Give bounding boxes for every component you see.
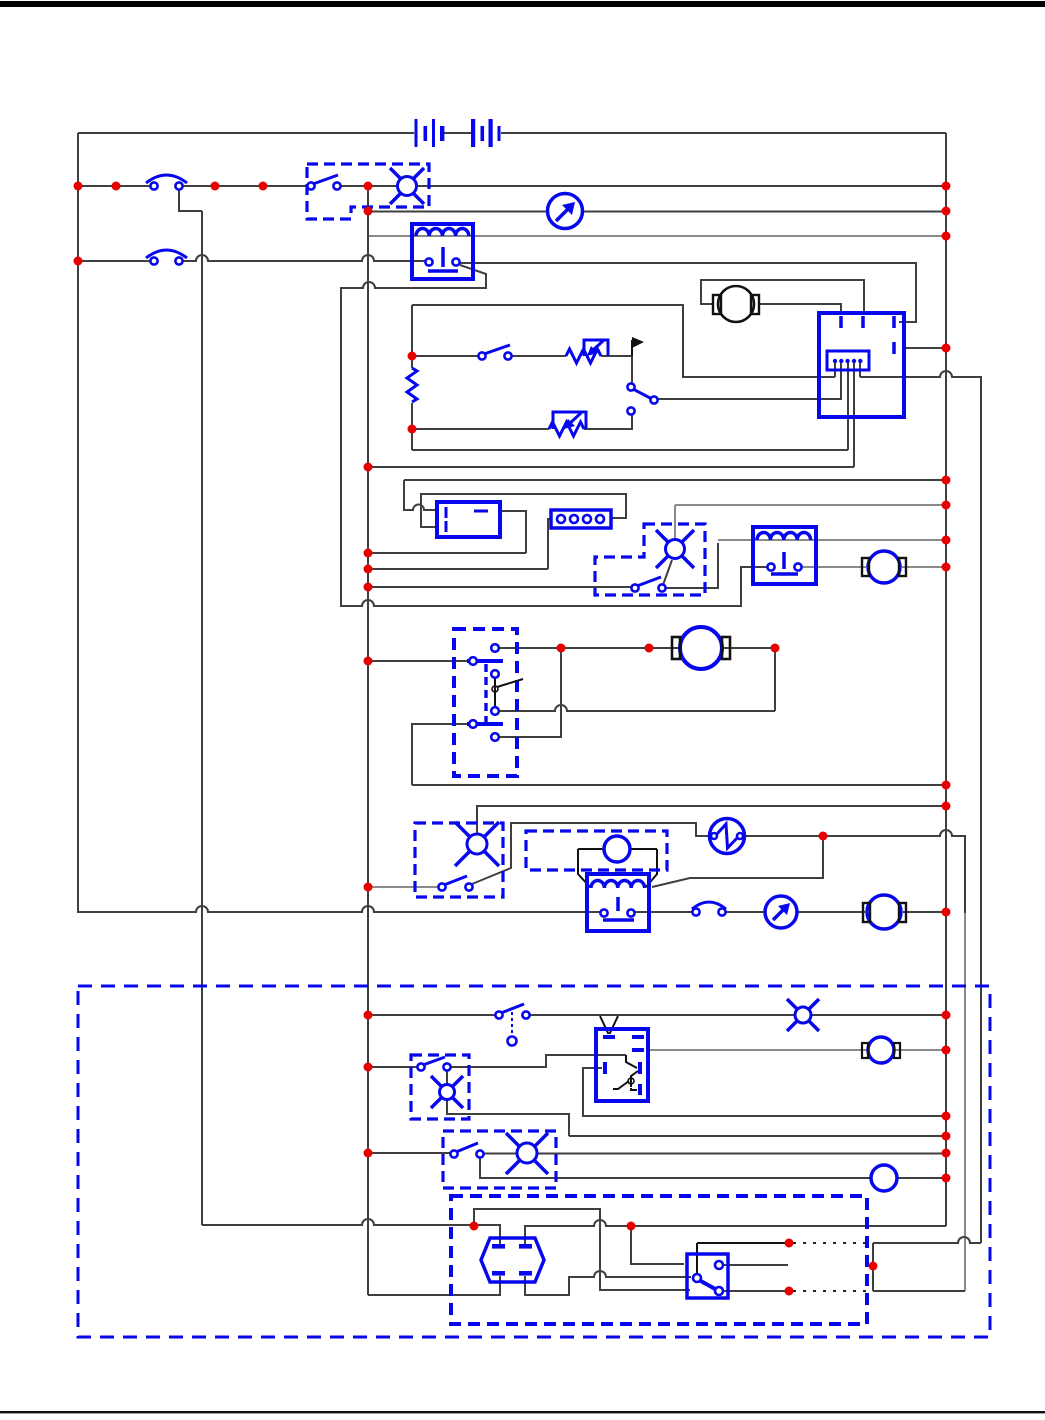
wire motor M1 left to charger pin2 bbox=[701, 280, 864, 312]
wire thermal to x965 rail bbox=[743, 830, 965, 913]
battery BT2 cells group2 bbox=[471, 119, 501, 147]
dashed enclosure sensor box bbox=[526, 831, 667, 870]
wire right rail x=946 bbox=[945, 133, 947, 1226]
node thermal junction bbox=[819, 832, 828, 841]
circuit breaker CB3 bbox=[692, 902, 726, 916]
wire charger pin4 to right rail bbox=[905, 347, 946, 349]
wire gauge line y=211 bbox=[368, 211, 946, 213]
wire switchbox top feed y1243 bbox=[697, 1243, 785, 1274]
relay K2 pivot black bbox=[628, 1078, 634, 1084]
relay pivot black bbox=[492, 679, 523, 692]
wire lamp2 top feed gray bbox=[675, 505, 946, 540]
wire lamp4 link bbox=[446, 1070, 448, 1084]
wire contact y737 up to y648 bbox=[499, 652, 561, 737]
wire x965 rail lower gray bbox=[964, 913, 966, 1291]
wire lamp4 bottom to y1136 bbox=[447, 1100, 946, 1136]
node bus1 dots bbox=[74, 182, 83, 191]
wire dotted y1291 bbox=[793, 1290, 869, 1292]
wire y806 and lamp drop bbox=[477, 806, 946, 834]
node motor M3 rung bbox=[557, 644, 566, 653]
lamp L2 bbox=[656, 530, 694, 568]
wire switchbox lower contact out bbox=[724, 1290, 785, 1292]
dashed enclosure inner bottom box bbox=[451, 1196, 867, 1324]
wire x202 rail bbox=[179, 189, 202, 1225]
wire bus y912 T3 to breaker bbox=[635, 911, 946, 913]
motor M5 bbox=[862, 1037, 900, 1063]
wire y711 with hop bbox=[499, 705, 775, 711]
thermal flag bbox=[632, 337, 644, 356]
wire T2 coil line gray bbox=[718, 539, 946, 541]
wire coil tap line y=236 bbox=[368, 235, 946, 237]
dashed enclosure lamp2+switch bbox=[595, 524, 705, 595]
wire rung y1067 bbox=[368, 1066, 417, 1068]
wire relay K2 internal zigzag bbox=[626, 1055, 637, 1068]
motor M6 plain bbox=[871, 1165, 897, 1191]
wire connector lead2 to SPDT throw bbox=[658, 363, 841, 399]
wire motor M3 rung y648 bbox=[499, 648, 775, 711]
wire top feeder mid bbox=[443, 132, 471, 134]
meter G1 bbox=[548, 194, 583, 229]
battery box B2 bbox=[437, 502, 500, 537]
node bottom bus dots bbox=[470, 1222, 479, 1231]
wire T-bar lower route to y785 bbox=[412, 724, 946, 785]
switch S1 bbox=[307, 175, 340, 190]
wire hex bottom-left to x368 bbox=[368, 1276, 500, 1295]
battery BT1 cells group1 bbox=[415, 119, 445, 147]
sensor C3 circle bbox=[604, 836, 630, 862]
wire hex bypass rect top bbox=[474, 1209, 690, 1290]
dashed enclosure ignition switch+lamp bbox=[307, 164, 429, 219]
switch S3 SPDT bbox=[627, 383, 657, 414]
motor M3 bbox=[672, 627, 730, 669]
lamp L1 bbox=[390, 168, 424, 204]
charger module U1 bbox=[819, 313, 904, 417]
wire rung y1153 bbox=[368, 1152, 946, 1155]
rheostat R2 bbox=[566, 340, 608, 363]
wire x368 rail bbox=[367, 186, 369, 1295]
transformer T2 bbox=[753, 527, 816, 584]
wire relay K2 left lead to y1116 bbox=[583, 1068, 946, 1116]
circuit breaker CB2 bbox=[146, 250, 187, 265]
thermal breaker F1 bbox=[710, 819, 745, 854]
wire fan switch left gray bbox=[368, 886, 438, 888]
node switchbox dots bbox=[785, 1239, 794, 1248]
wire T1 secondary to charger pin3 bbox=[459, 263, 916, 322]
wire hex bottom-right to relay pivot with hop bbox=[525, 1271, 691, 1295]
resistor R1 bbox=[407, 368, 417, 402]
switch S9 bbox=[450, 1143, 483, 1158]
header bar bbox=[0, 1, 1045, 7]
wire switch S4 to T2 coil corner bbox=[666, 543, 718, 588]
wire connector lead1 bbox=[834, 363, 836, 377]
wire bottom bus y1225 right segment with hop bbox=[525, 1220, 946, 1244]
wire y467 to lead4 bbox=[368, 466, 854, 468]
wire relay column NO top y661 bbox=[368, 660, 468, 662]
dashed enclosure fan box bbox=[415, 823, 503, 897]
dashed enclosure lamp5 box bbox=[443, 1131, 556, 1188]
wire bottom bus y1225 left segment bbox=[202, 1219, 500, 1244]
wire switchbox mid stub bbox=[724, 1264, 788, 1266]
wire connector lead5 bbox=[859, 363, 861, 377]
wire relay K2 output to motor M5 gray bbox=[648, 1049, 946, 1051]
wire bus1 y=186 segments bbox=[78, 185, 946, 187]
circuit breaker CB1 bbox=[146, 175, 187, 190]
wire lamp2 drop diagonal bbox=[663, 560, 672, 585]
wire 4pin connector left leg bbox=[548, 519, 550, 569]
wire y569 bbox=[368, 568, 548, 570]
wire relay K2 transistor tail bbox=[613, 1071, 638, 1090]
motor M1 black bbox=[713, 286, 759, 322]
node bus2 left bbox=[74, 257, 83, 266]
wire pull switch rung y1015 bbox=[368, 1014, 946, 1016]
transformer T1 bbox=[412, 224, 473, 279]
switch S8 bbox=[417, 1057, 450, 1071]
wire top feeder left bbox=[78, 132, 414, 134]
switch S2 bbox=[478, 345, 511, 360]
node y211 junction bbox=[364, 207, 373, 216]
switch S6 pull bbox=[495, 1004, 529, 1046]
node right rail dots bbox=[942, 182, 951, 191]
dashed enclosure lamp4 box bbox=[411, 1055, 469, 1119]
lamp L5 bbox=[431, 1076, 463, 1108]
wire C3 yoke bbox=[578, 849, 657, 887]
lamp L3 fan bbox=[455, 822, 499, 866]
wire relay column inner switch link bbox=[494, 677, 496, 708]
wire battery-box right leg bbox=[501, 511, 526, 553]
wire dot631 to switchbox upper contact bbox=[631, 1226, 684, 1264]
switch box S10 bbox=[687, 1254, 728, 1298]
wire dotted y1243 bbox=[793, 1242, 869, 1244]
footer rule bbox=[0, 1411, 1045, 1413]
wire relay K2 V input bbox=[600, 1016, 618, 1034]
lamp L4 bbox=[787, 999, 819, 1031]
wire switch S8 to relay K2 left input bbox=[451, 1055, 626, 1067]
hexagon component U2 bbox=[481, 1238, 544, 1282]
wire y1291 solid right to x965 bbox=[873, 1290, 965, 1292]
wire SPDT lower contact to rheostat2 rung bbox=[412, 415, 632, 429]
wire inner-circuit top loop and y377 left bbox=[412, 305, 835, 377]
wire bus2 y=261 with hops bbox=[78, 255, 426, 261]
motor M2 bbox=[862, 551, 906, 583]
wire y553 bbox=[368, 552, 526, 554]
wire branch y1178 bbox=[480, 1158, 946, 1178]
wire rung y356 bbox=[412, 356, 632, 384]
wire fan switch to thermal breaker bbox=[472, 823, 711, 884]
meter G2 bbox=[765, 896, 797, 928]
motor M4 bbox=[863, 895, 906, 929]
rheostat R3 bbox=[549, 412, 586, 436]
relay module K2 bbox=[596, 1029, 648, 1101]
wire y587 to lamp switch bbox=[368, 586, 631, 588]
lamp L6 bbox=[506, 1133, 548, 1174]
wire connector lead4 bbox=[853, 363, 855, 467]
connector J1 4-pin bbox=[551, 510, 611, 528]
switch S4 bbox=[631, 577, 665, 592]
wire motor M1 right to charger pin1 bbox=[759, 304, 841, 312]
dashed enclosure relay contact column bbox=[454, 629, 517, 776]
dashed enclosure outer assembly bbox=[78, 986, 990, 1337]
wire connector lead3 bbox=[847, 363, 849, 450]
wire thermal junction down to T3 bbox=[652, 836, 823, 887]
wire top feeder right bbox=[501, 132, 946, 134]
wire inner-circuit left rail bbox=[411, 305, 413, 450]
transformer T3 bbox=[587, 874, 649, 931]
wire bus y912 with hops bbox=[78, 906, 600, 912]
wire inner-circuit bottom y=450 bbox=[412, 449, 848, 451]
node x368 taps bbox=[364, 463, 373, 472]
wire T1 secondary loop around left/bottom bbox=[341, 265, 767, 606]
wire battery-box upper feed with hop bbox=[404, 480, 437, 510]
wire left rail x=78 bbox=[77, 133, 79, 911]
wire y1243 solid right to x981 bbox=[873, 1237, 981, 1243]
wire T2 secondary right to motor M2 bbox=[802, 566, 946, 568]
node inner circuit rails bbox=[408, 352, 417, 361]
wire x873 link bbox=[872, 1243, 874, 1291]
wire y480 to right rail bbox=[404, 479, 946, 481]
switch S5 bbox=[438, 876, 472, 891]
wire y377 right to x981 rail down bbox=[860, 371, 981, 1243]
wire battery-box lower to 4pin connector bbox=[421, 494, 626, 527]
